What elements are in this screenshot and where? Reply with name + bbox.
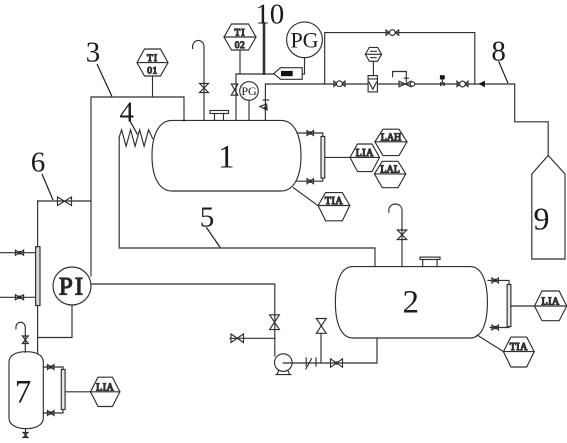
- vessel 2 (horizontal drum): [335, 267, 487, 338]
- valve vessel1 vent: [200, 84, 209, 93]
- wire flow hexagon stem: [372, 61, 374, 75]
- valve V6: [58, 197, 72, 206]
- wire left feed header: [37, 201, 39, 354]
- svg-text:LIA: LIA: [356, 148, 374, 159]
- svg-text:LAL: LAL: [380, 165, 399, 176]
- instrument TI-02 hexagon: [224, 24, 256, 50]
- pump P1: [275, 354, 293, 372]
- wire gauge1 to LIA: [325, 156, 350, 158]
- svg-text:6: 6: [31, 147, 46, 179]
- valve pump suction: [270, 315, 280, 330]
- wire PG big stem: [304, 58, 306, 74]
- svg-text:7: 7: [15, 375, 32, 411]
- vessel 9 (gas cylinder): [532, 156, 565, 260]
- thick leader line 10: [263, 24, 266, 74]
- svg-text:TI: TI: [147, 54, 158, 64]
- wire valve-6 branch: [38, 200, 91, 202]
- inline element flag: [274, 68, 303, 80]
- valve main 2 (ball): [457, 81, 468, 86]
- vessel 7 vent gooseneck: [16, 322, 25, 352]
- wire pipe loop 3 (vessel1 left top loop): [91, 97, 184, 276]
- leader TIA vessel1: [293, 188, 318, 206]
- valve angle (tilted): [263, 99, 269, 101]
- wire bypass loop: [325, 33, 475, 84]
- wire feed stub A: [0, 252, 36, 254]
- svg-text:4: 4: [120, 97, 135, 129]
- svg-text:2: 2: [403, 284, 420, 320]
- wire pump discharge to vessel 2: [283, 338, 377, 363]
- svg-text:10: 10: [255, 0, 284, 31]
- valve recycle: [316, 319, 326, 334]
- svg-text:TIA: TIA: [325, 196, 343, 207]
- svg-text:02: 02: [235, 41, 246, 51]
- svg-text:PG: PG: [241, 84, 257, 98]
- rotameter FI: [368, 76, 377, 92]
- manway flange vessel 1: [215, 114, 224, 121]
- valve TI02 line: [231, 84, 238, 95]
- instrument PI: [53, 267, 91, 305]
- level gauge vessel 7: [43, 367, 63, 413]
- instrument LAL: [374, 161, 405, 187]
- valve feed B: [15, 295, 23, 300]
- svg-text:3: 3: [86, 37, 101, 69]
- svg-text:LAH: LAH: [381, 132, 402, 143]
- wire gauge2 to LIA: [511, 305, 535, 307]
- level gauge vessel 2: [488, 280, 509, 327]
- valve discharge: [331, 359, 343, 367]
- wire TI-02 branch with valve: [236, 50, 240, 120]
- svg-text:01: 01: [147, 67, 158, 77]
- control valve: [399, 81, 411, 87]
- valve bypass (ball): [386, 30, 399, 35]
- leader TIA vessel2: [477, 335, 503, 352]
- check valve: [479, 81, 485, 88]
- valve vessel7 vent: [22, 336, 28, 344]
- instrument LIA (vessel2): [535, 291, 567, 321]
- solenoid block valve: [440, 75, 445, 79]
- flow hexagon: [365, 47, 381, 61]
- instrument TIA (vessel2): [503, 337, 534, 367]
- instrument LIA (vessel7): [91, 377, 120, 406]
- level gauge vessel 1: [297, 133, 323, 181]
- wire pump left stub: [230, 337, 275, 339]
- valve drain: [23, 433, 28, 438]
- vessel 2 vent gooseneck: [389, 204, 402, 267]
- wire main gas line: [265, 84, 548, 156]
- instrument TI-01 hexagon: [137, 49, 168, 76]
- instrument LAH: [375, 129, 407, 155]
- valve main 1 (ball): [334, 81, 345, 86]
- svg-text:TI: TI: [235, 28, 246, 38]
- svg-text:9: 9: [534, 201, 550, 237]
- wire recycle stub: [320, 333, 322, 363]
- wire line 5 (heater line to vessel 2): [119, 137, 375, 267]
- wire PI drain: [38, 305, 72, 338]
- valve feed A: [15, 250, 23, 255]
- svg-text:TIA: TIA: [510, 342, 528, 353]
- vessel 7 (vertical drum): [9, 352, 43, 429]
- svg-text:LIA: LIA: [542, 297, 560, 308]
- heating coil 4 (zigzag): [119, 130, 152, 147]
- filter element on header: [36, 247, 40, 306]
- wire instrument header (flag line): [236, 73, 305, 75]
- wire feed stub B: [0, 296, 36, 298]
- svg-text:LIA: LIA: [96, 382, 114, 393]
- union slash symbol: [306, 358, 316, 369]
- instrument LIA (vessel1): [350, 144, 380, 172]
- vessel 1 (horizontal drum): [152, 120, 301, 191]
- instrument PG small: [240, 82, 259, 101]
- instrument PG big: [287, 22, 323, 58]
- flange nozzle vessel 2: [423, 260, 437, 267]
- valve pump left: [231, 334, 244, 343]
- svg-text:PI: PI: [59, 274, 85, 301]
- vessel 1 vent gooseneck: [193, 40, 204, 120]
- instrument TIA (vessel1): [318, 193, 350, 221]
- vessel 7 drain: [25, 429, 27, 438]
- svg-text:PG: PG: [290, 28, 318, 53]
- wire gauge7 to LIA: [65, 391, 90, 393]
- svg-text:1: 1: [218, 140, 235, 176]
- wire TI-01 stem: [152, 76, 154, 97]
- valve vessel2 vent: [397, 230, 406, 240]
- wire PI to pump suction: [91, 284, 275, 356]
- wire PG small stem: [248, 100, 250, 120]
